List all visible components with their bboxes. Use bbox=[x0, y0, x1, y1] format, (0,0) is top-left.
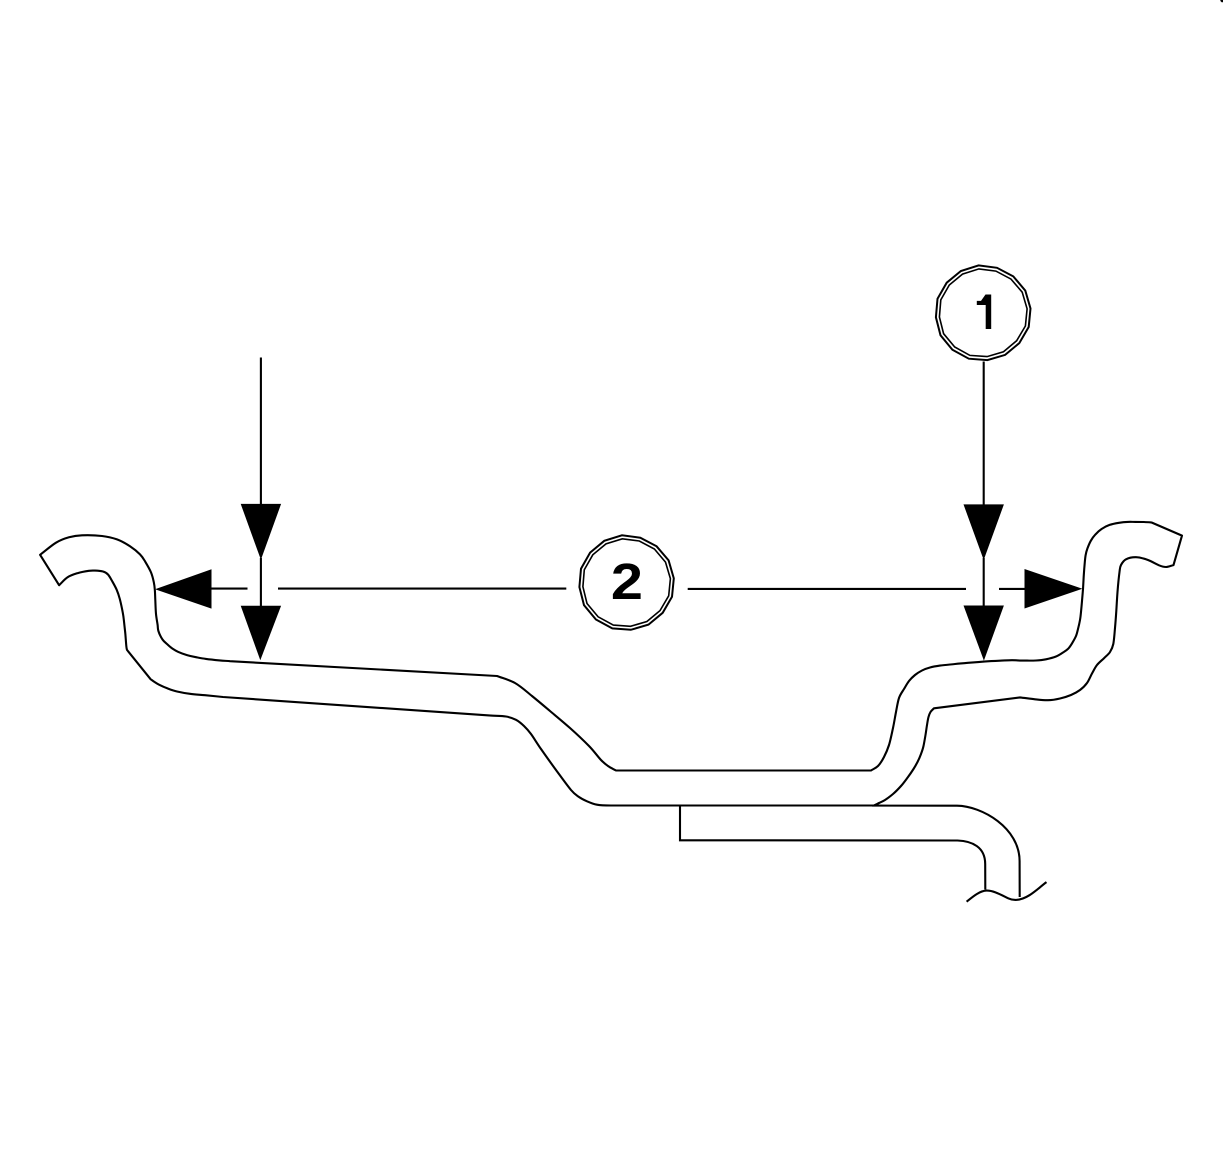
svg-text:2: 2 bbox=[611, 553, 643, 610]
